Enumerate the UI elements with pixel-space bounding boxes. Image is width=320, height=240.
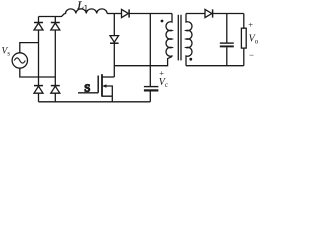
diode D7 output bbox=[205, 9, 213, 17]
wire D6 cathode down to drain bbox=[113, 43, 115, 77]
transformer secondary polarity dot bbox=[189, 58, 192, 61]
wire Vc bottom lead bbox=[149, 92, 151, 102]
diode D1 bridge top-left bbox=[34, 23, 43, 31]
transformer T1 secondary winding bbox=[186, 14, 192, 66]
wire source top lead bbox=[20, 43, 39, 54]
transformer core bbox=[177, 15, 179, 61]
diode D6 pointing down bbox=[110, 36, 119, 44]
diode D3 bridge bottom-left bbox=[34, 86, 43, 94]
drain lead bbox=[102, 76, 114, 78]
wire mid rail from node to primary bottom bbox=[114, 57, 172, 66]
source lead bbox=[102, 96, 112, 102]
capacitor Co plates bbox=[220, 42, 234, 44]
AC source Vs circle bbox=[12, 53, 27, 68]
svg-text:−: − bbox=[249, 50, 254, 60]
svg-text:L1: L1 bbox=[76, 0, 88, 12]
wire secondary top to output diode bbox=[186, 13, 205, 15]
wire output bottom rail bbox=[186, 65, 244, 67]
diode D5 series top diode bbox=[122, 9, 130, 17]
svg-text:Vo: Vo bbox=[249, 34, 258, 46]
capacitor Co output top lead bbox=[226, 14, 228, 43]
AC source sine glyph bbox=[14, 58, 25, 63]
MOSFET switch S bbox=[78, 74, 114, 102]
capacitor Vc plates bbox=[144, 86, 159, 88]
wire output top rail bbox=[213, 13, 244, 15]
wire Co bottom lead bbox=[226, 47, 228, 65]
gate bar bbox=[97, 76, 99, 93]
wire bridge left vertical bbox=[38, 17, 40, 102]
svg-text:+: + bbox=[248, 20, 253, 30]
diode D2 bridge top-right bbox=[51, 23, 60, 31]
channel bar bbox=[101, 74, 103, 97]
wire bridge top rail bbox=[39, 14, 65, 17]
capacitor Vc vertical lead from top rail (crosses mid rail) bbox=[149, 14, 151, 87]
transformer T1 primary winding bbox=[166, 14, 172, 57]
inductor L1 bbox=[65, 9, 108, 14]
diode D4 bridge bottom-right bbox=[51, 86, 60, 94]
wire vertical branch at node x114 bbox=[113, 14, 115, 36]
resistor RL load bbox=[243, 14, 245, 29]
wire source bottom lead bbox=[20, 68, 56, 77]
wire top rail D5 to transformer bbox=[129, 13, 172, 15]
svg-text:Vs: Vs bbox=[2, 47, 11, 58]
wire bottom rail bbox=[39, 101, 151, 103]
gate lead bbox=[78, 92, 98, 94]
svg-text:S: S bbox=[84, 82, 90, 94]
body arrow lead bbox=[106, 86, 113, 96]
svg-text:Vc: Vc bbox=[159, 77, 168, 89]
wire top rail L1 to diode D5 bbox=[107, 13, 121, 15]
transformer primary polarity dot bbox=[161, 20, 164, 23]
wire bridge right vertical bbox=[54, 17, 56, 102]
